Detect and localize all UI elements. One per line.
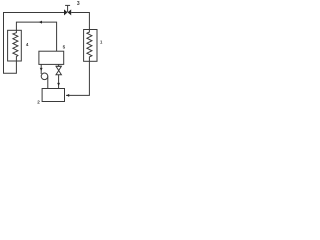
svg-text:5: 5	[63, 45, 66, 50]
svg-text:3: 3	[77, 1, 80, 7]
svg-text:4: 4	[26, 42, 29, 47]
svg-text:2: 2	[37, 100, 40, 105]
